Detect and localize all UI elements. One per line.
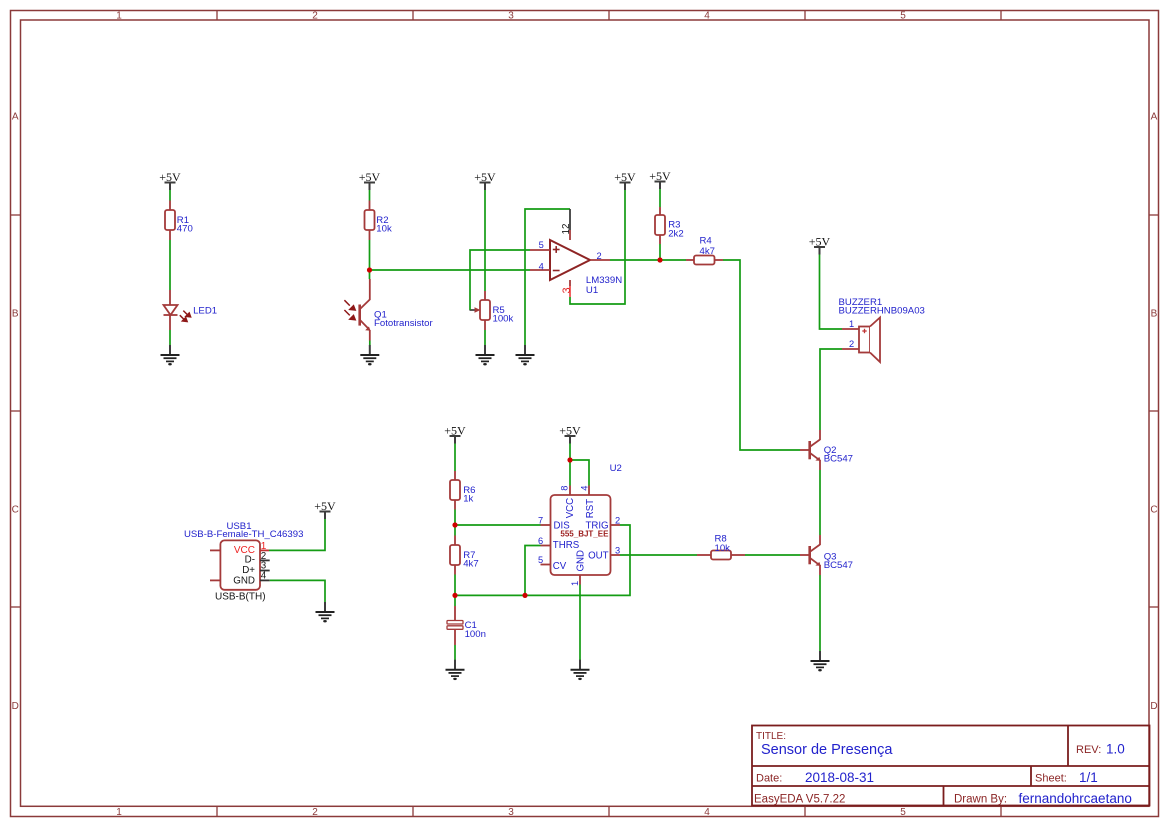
svg-text:5: 5 — [538, 555, 543, 565]
wire (GND pin to ground) — [270, 580, 325, 602]
wire (pin1 to ground) — [579, 585, 581, 661]
wire — [454, 444, 456, 472]
svg-text:470: 470 — [177, 224, 193, 235]
wire — [484, 190, 486, 291]
pin 8 stub — [569, 486, 571, 496]
wire — [484, 330, 486, 345]
svg-text:2k2: 2k2 — [668, 228, 683, 239]
svg-text:2018-08-31: 2018-08-31 — [805, 770, 874, 785]
transistor Q1 — [360, 279, 370, 341]
svg-text:TITLE:: TITLE: — [756, 731, 786, 742]
wire (R8 to Q3 base) — [745, 554, 800, 556]
pin 3 stub — [569, 280, 571, 286]
node junction (THRS branch) — [522, 593, 527, 598]
pin 2 TRIG — [611, 524, 621, 526]
svg-text:100n: 100n — [465, 629, 486, 640]
wire (to pins 8/4) — [569, 444, 571, 486]
svg-text:5: 5 — [539, 240, 544, 250]
wire (Q2 emitter to Q3 collector) — [819, 470, 821, 535]
svg-text:3: 3 — [615, 546, 620, 556]
wire (gnd loop to pin 12) — [525, 209, 570, 345]
svg-text:100k: 100k — [493, 314, 514, 325]
wire (pin3 to +5V) — [570, 190, 625, 304]
pin 6 THRS — [541, 545, 551, 547]
svg-text:BC547: BC547 — [824, 454, 853, 465]
svg-text:U2: U2 — [610, 463, 622, 474]
wire (pin 2 to Q2 collector) — [820, 349, 842, 430]
wire — [454, 575, 456, 607]
IC U2 body — [551, 495, 611, 575]
power +5V (R1) — [159, 170, 181, 190]
wire (TRIG net) — [455, 525, 630, 595]
svg-text:C: C — [1150, 505, 1157, 516]
svg-text:REV:: REV: — [1076, 744, 1101, 756]
right ruler ticks — [1149, 215, 1159, 607]
wire — [169, 240, 171, 290]
power +5V (U2) — [559, 424, 581, 444]
svg-text:1.0: 1.0 — [1106, 742, 1125, 757]
ground (U1 pin12) — [516, 345, 535, 365]
svg-text:1: 1 — [849, 319, 854, 329]
svg-text:GND: GND — [576, 550, 587, 572]
svg-text:BUZZERHNB09A03: BUZZERHNB09A03 — [839, 306, 925, 317]
svg-text:1: 1 — [116, 807, 122, 818]
wire (555 OUT to R8) — [620, 554, 697, 556]
op-amp U1 — [550, 240, 590, 280]
wire — [169, 330, 171, 345]
svg-text:BC547: BC547 — [824, 560, 853, 571]
power +5V (R6) — [444, 424, 466, 444]
resistor R8 — [697, 554, 711, 556]
power +5V (R5) — [474, 170, 496, 190]
power +5V (R2) — [359, 170, 381, 190]
svg-text:A: A — [1151, 111, 1158, 122]
svg-text:USB-B-Female-TH_C46393: USB-B-Female-TH_C46393 — [184, 529, 303, 540]
wire (THRS net) — [525, 546, 541, 596]
resistor R1 — [169, 201, 171, 211]
svg-text:2: 2 — [849, 339, 854, 349]
svg-text:3: 3 — [508, 11, 514, 22]
svg-text:4k7: 4k7 — [463, 559, 478, 570]
resistor R2 — [369, 201, 371, 211]
resistor R3 — [659, 207, 661, 215]
svg-text:DIS: DIS — [554, 521, 571, 532]
ground (C1) — [446, 660, 465, 680]
wire — [659, 189, 661, 207]
svg-text:D: D — [1150, 701, 1157, 712]
wire (output) — [610, 259, 686, 261]
pin 5 CV — [541, 564, 551, 566]
svg-text:B: B — [1151, 309, 1158, 320]
node junction (R6/R7/DIS) — [452, 522, 457, 527]
wire (+5V to VCC pin) — [269, 519, 325, 550]
resistor R7 — [454, 536, 456, 546]
Q3 base stub — [800, 554, 810, 556]
LED LED1 — [164, 290, 178, 330]
svg-text:4: 4 — [704, 11, 710, 22]
svg-text:2: 2 — [312, 807, 318, 818]
pin 3 OUT — [611, 554, 621, 556]
Q2 base stub — [800, 449, 810, 451]
buzzer BUZZER1 — [842, 328, 859, 330]
svg-text:GND: GND — [233, 576, 255, 587]
power +5V (USB) — [314, 499, 336, 519]
wire — [169, 190, 171, 201]
svg-text:Fototransistor: Fototransistor — [374, 318, 433, 329]
svg-text:U1: U1 — [586, 285, 598, 296]
node junction (U1 out / R3 / R4) — [657, 257, 662, 262]
svg-text:USB-B(TH): USB-B(TH) — [215, 591, 266, 602]
pin 4 stub — [530, 269, 550, 271]
svg-text:1k: 1k — [463, 494, 473, 505]
svg-text:4k7: 4k7 — [700, 246, 715, 257]
node junction (U2 VCC/RST) — [567, 457, 572, 462]
pin 4 stub — [588, 486, 590, 496]
svg-text:OUT: OUT — [588, 551, 609, 562]
svg-text:1: 1 — [570, 581, 580, 586]
wire (Q3 emitter to ground) — [819, 575, 821, 651]
wire — [454, 510, 456, 536]
power +5V (U1 pin3) — [614, 170, 636, 190]
svg-text:6: 6 — [538, 536, 543, 546]
svg-text:2: 2 — [615, 516, 620, 526]
svg-text:EasyEDA V5.7.22: EasyEDA V5.7.22 — [754, 793, 845, 805]
title block outline — [752, 726, 1150, 806]
svg-text:A: A — [12, 111, 19, 122]
svg-text:1/1: 1/1 — [1079, 770, 1098, 785]
bottom ruler numbers — [116, 807, 906, 818]
svg-text:CV: CV — [553, 561, 567, 572]
svg-text:Drawn By:: Drawn By: — [954, 794, 1007, 806]
svg-text:4: 4 — [539, 262, 544, 272]
left ruler ticks — [11, 215, 21, 607]
capacitor C1 — [454, 606, 456, 620]
svg-text:1: 1 — [116, 11, 122, 22]
svg-text:D: D — [12, 701, 19, 712]
wire (to pin 1) — [820, 255, 843, 330]
wire — [659, 244, 661, 260]
svg-text:VCC: VCC — [565, 498, 576, 518]
svg-text:Sensor de Presença: Sensor de Presença — [761, 742, 893, 758]
svg-text:fernandohrcaetano: fernandohrcaetano — [1019, 791, 1132, 806]
left ruler letters — [12, 111, 19, 712]
transistor Q2 — [810, 430, 820, 470]
wire (R4 to Q2 base) — [723, 260, 800, 450]
wire — [369, 190, 371, 201]
pin 1 GND — [579, 575, 581, 585]
node junction (R7/C1/TRIG net) — [452, 593, 457, 598]
node junction (Q1 collector) — [367, 267, 372, 272]
svg-text:D-: D- — [245, 554, 255, 565]
svg-text:8: 8 — [559, 486, 569, 491]
svg-text:7: 7 — [538, 516, 543, 526]
pin 7 DIS — [541, 524, 551, 526]
svg-text:TRIG: TRIG — [585, 521, 608, 532]
ground (USB) — [316, 602, 335, 622]
svg-text:R4: R4 — [700, 236, 713, 247]
wire (wiper to + input) — [470, 250, 530, 310]
ground (Q3) — [811, 651, 830, 671]
pin 12 stub — [569, 209, 571, 230]
wire — [369, 240, 371, 279]
connector USB1 body — [220, 540, 260, 589]
ground (Q1) — [360, 345, 379, 365]
svg-text:10k: 10k — [376, 224, 392, 235]
wire (Q1 node to comparator minus) — [370, 269, 531, 271]
svg-text:C: C — [12, 505, 19, 516]
ground (U2) — [571, 660, 590, 680]
svg-text:2: 2 — [312, 11, 318, 22]
svg-text:3: 3 — [561, 287, 573, 293]
svg-text:4: 4 — [579, 486, 589, 491]
wire (DIS net) — [455, 524, 541, 526]
pin 5 stub — [530, 249, 550, 251]
svg-text:RST: RST — [585, 499, 596, 518]
svg-text:THRS: THRS — [553, 540, 580, 551]
svg-text:2: 2 — [597, 251, 602, 261]
svg-text:4: 4 — [704, 807, 710, 818]
svg-text:LED1: LED1 — [193, 305, 217, 316]
svg-text:5: 5 — [900, 11, 906, 22]
svg-text:12: 12 — [561, 224, 572, 235]
svg-text:5: 5 — [900, 807, 906, 818]
svg-text:3: 3 — [508, 807, 514, 818]
ground (R5) — [476, 345, 495, 365]
svg-text:B: B — [12, 309, 19, 320]
svg-text:Sheet:: Sheet: — [1035, 773, 1067, 785]
svg-text:10k: 10k — [715, 543, 731, 554]
pin 2 output stub — [590, 259, 610, 261]
wire — [454, 645, 456, 660]
right ruler letters — [1150, 111, 1157, 712]
bottom ruler ticks — [217, 806, 1001, 816]
top ruler ticks — [217, 11, 1001, 21]
transistor Q3 — [810, 535, 820, 575]
ground (LED1) — [161, 345, 180, 365]
resistor R4 — [686, 259, 694, 261]
top ruler numbers — [116, 11, 906, 22]
potentiometer R5 — [484, 291, 486, 300]
svg-text:Date:: Date: — [756, 773, 782, 785]
power +5V (R3) — [649, 169, 671, 189]
power +5V (buzzer) — [809, 235, 831, 255]
wire — [369, 341, 371, 346]
USB left mount pins — [210, 549, 220, 551]
resistor R6 — [454, 471, 456, 480]
